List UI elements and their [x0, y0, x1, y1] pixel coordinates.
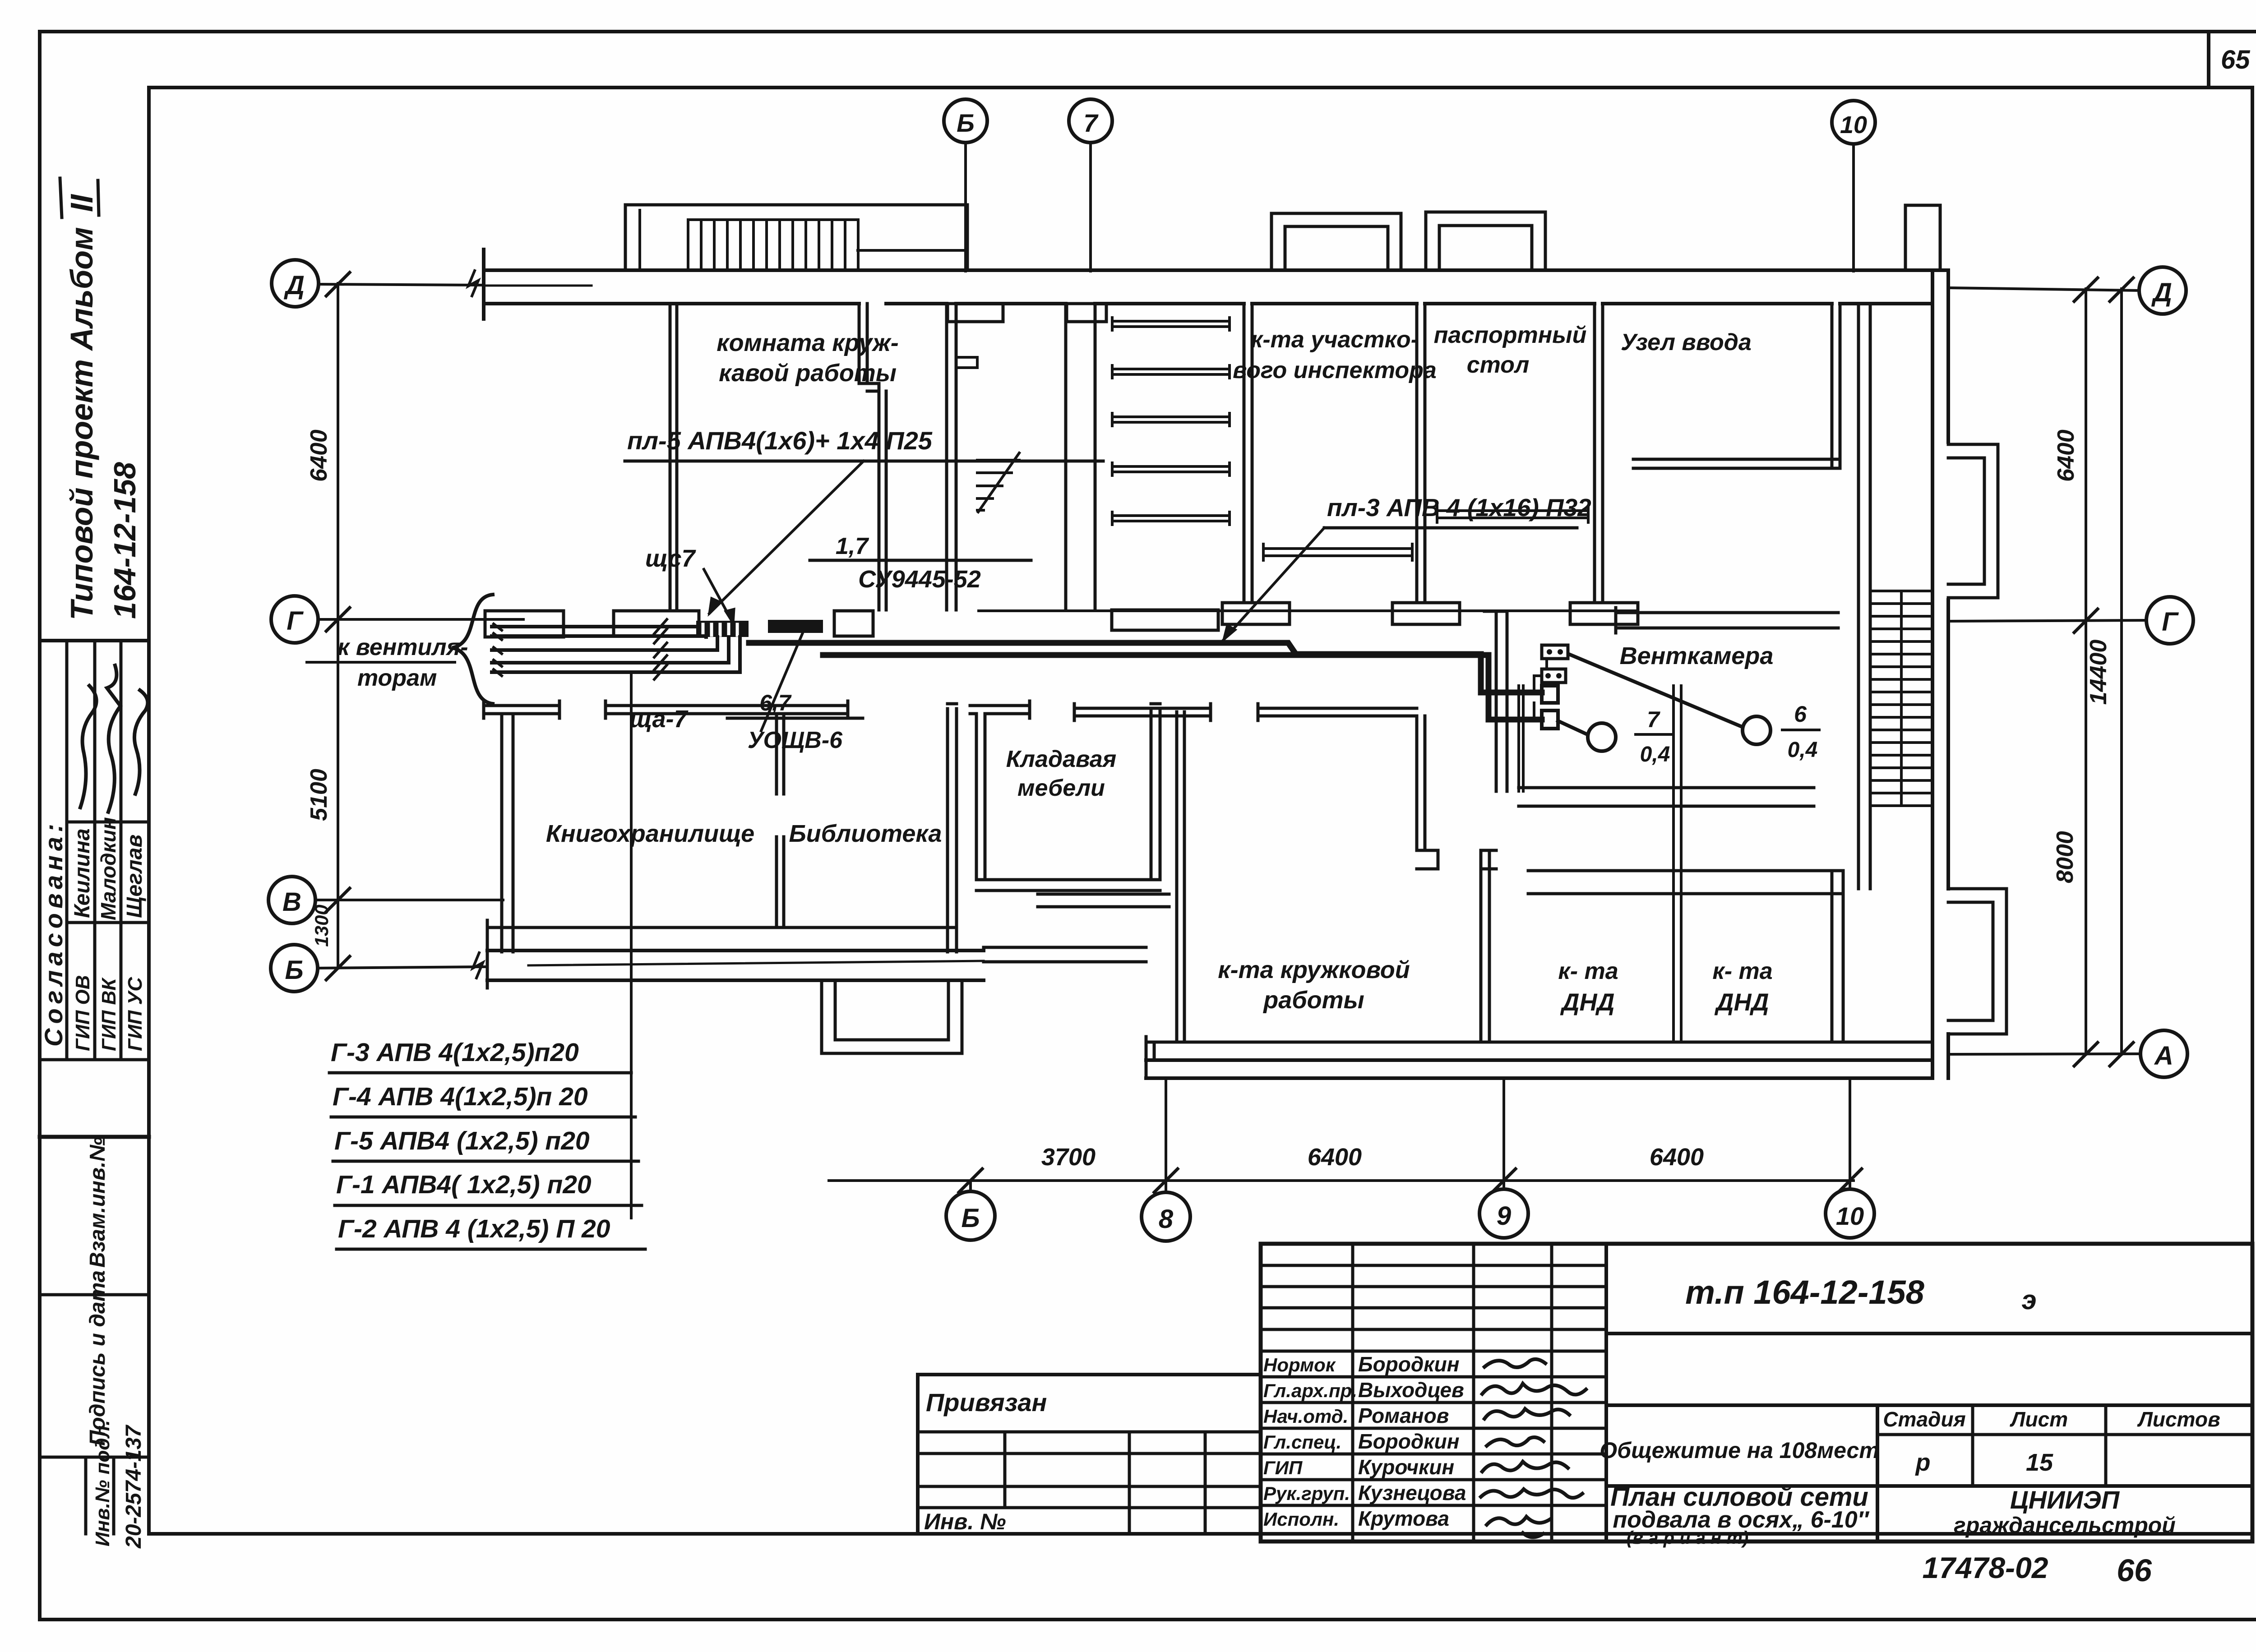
- corridor pilaster cap 1: [485, 611, 564, 637]
- svg-text:6400: 6400: [1308, 1144, 1362, 1171]
- right exterior wall: [1932, 270, 1948, 1078]
- svg-text:Б: Б: [961, 1204, 980, 1233]
- svg-text:20-2574-137: 20-2574-137: [122, 1424, 146, 1549]
- svg-text:Стадия: Стадия: [1883, 1407, 1965, 1431]
- svg-text:164-12-158: 164-12-158: [108, 462, 142, 619]
- svg-text:Малодкин: Малодкин: [97, 817, 120, 920]
- room label к-та участкового инспектора: [1233, 327, 1437, 383]
- svg-text:Исполн.: Исполн.: [1263, 1509, 1339, 1530]
- wire from starter to fan 6: [1569, 654, 1743, 727]
- svg-text:Выходцев: Выходцев: [1358, 1378, 1464, 1402]
- label пл-3 АПВ 4 (1x16) П32 with leader: [1224, 494, 1591, 640]
- svg-text:II: II: [64, 194, 99, 212]
- svg-text:вого инспектора: вого инспектора: [1233, 357, 1437, 383]
- svg-text:Согласована:: Согласована:: [39, 819, 68, 1047]
- svg-text:к-та участко-: к-та участко-: [1251, 327, 1419, 353]
- title cell План силовой сети: [1610, 1482, 1870, 1548]
- svg-text:к-та кружковой: к-та кружковой: [1218, 956, 1410, 983]
- ДНД top wall band: [1528, 871, 1843, 894]
- grid circle Д left: [272, 260, 319, 307]
- axis line Г right: [1950, 620, 2146, 621]
- svg-text:ГИП ОВ: ГИП ОВ: [72, 975, 94, 1051]
- stamp table verticals: [1353, 1244, 1606, 1541]
- svg-text:к вентиля-: к вентиля-: [337, 634, 468, 660]
- grid circle 10 top: [1832, 101, 1875, 144]
- grid circle 9 bottom: [1479, 1189, 1528, 1238]
- exterior top wall band: [484, 249, 1948, 319]
- узел ввода room bottom wall: [1633, 459, 1840, 468]
- feeder list Г-5: [333, 1126, 638, 1161]
- stairwell left wall: [947, 304, 956, 610]
- svg-text:Кеилина: Кеилина: [70, 828, 94, 918]
- svg-text:Романов: Романов: [1358, 1404, 1449, 1427]
- sidebar table Согласована: [39, 641, 149, 1060]
- grid circle 8 bottom: [1142, 1192, 1190, 1241]
- desk bar in инспектор room: [1263, 544, 1412, 560]
- stamp roles and names: [1263, 1352, 1466, 1530]
- wall left of инспектор room: [1244, 304, 1252, 603]
- title cell Общежитие на 108мест: [1600, 1405, 1879, 1541]
- stairwell right wall at axis 7: [1066, 304, 1095, 610]
- title cell т.п 164-12-158: [1606, 1274, 2252, 1334]
- stair flight hatch going down: [977, 453, 1019, 512]
- svg-text:Привязан: Привязан: [926, 1388, 1047, 1417]
- svg-text:Д: Д: [283, 271, 305, 300]
- svg-text:Узел ввода: Узел ввода: [1621, 329, 1752, 355]
- label fraction 1,7 / СУ9445-52: [810, 533, 1031, 593]
- feeder list Г-4: [331, 1082, 635, 1117]
- svg-text:Нормок: Нормок: [1263, 1354, 1336, 1375]
- magnetic starter box 2: [1542, 669, 1566, 683]
- bottom dimension line: [829, 1169, 1862, 1192]
- svg-text:ща-7: ща-7: [629, 706, 689, 733]
- svg-text:торам: торам: [357, 665, 437, 691]
- porch stair hatch lines: [688, 220, 858, 270]
- svg-text:Г-5 АПВ4 (1х2,5) п20: Г-5 АПВ4 (1х2,5) п20: [334, 1126, 590, 1155]
- label пл-5 АПВ4(1x6)+1x4 П25 with leader: [625, 426, 1103, 614]
- венткамера partition wall: [1674, 686, 1681, 1042]
- svg-text:В: В: [282, 887, 301, 917]
- svg-text:т.п 164-12-158: т.п 164-12-158: [1685, 1274, 1925, 1311]
- svg-text:кавой работы: кавой работы: [719, 360, 897, 387]
- svg-text:Гл.спец.: Гл.спец.: [1263, 1431, 1341, 1453]
- svg-text:мебели: мебели: [1017, 775, 1105, 801]
- right appendage upper double rect: [1948, 444, 1998, 598]
- svg-text:14400: 14400: [2085, 640, 2112, 705]
- svg-text:ГИП ВК: ГИП ВК: [98, 977, 120, 1051]
- entrance pit below Библиотека: [822, 980, 962, 1053]
- handwritten number 17478-02 66: [1923, 1551, 2152, 1588]
- axis line Г left: [318, 618, 523, 621]
- svg-text:ДНД: ДНД: [1715, 989, 1769, 1016]
- room label паспортный стол: [1434, 322, 1587, 378]
- svg-text:65: 65: [2221, 45, 2250, 74]
- feeder drop line to list: [630, 672, 633, 1218]
- axis line Б left: [318, 967, 486, 968]
- label щс7 with leader: [645, 545, 734, 623]
- узел ввода room right wall: [1832, 304, 1840, 468]
- corridor north line right part: [979, 609, 1638, 612]
- svg-text:17478-02: 17478-02: [1923, 1551, 2048, 1584]
- grid circle 10 bottom: [1826, 1189, 1874, 1238]
- stamp table thin rows: [1261, 1265, 1606, 1351]
- svg-text:ГИП УС: ГИП УС: [124, 977, 146, 1051]
- svg-text:комната круж-: комната круж-: [717, 329, 898, 356]
- svg-text:1,7: 1,7: [836, 533, 869, 559]
- svg-text:к- та: к- та: [1558, 958, 1618, 984]
- main cable run B from ЩА-7 to starters: [823, 655, 1542, 720]
- svg-text:6400: 6400: [2053, 429, 2079, 482]
- grid circle В left: [268, 877, 315, 923]
- grid circle Б top: [944, 99, 987, 143]
- svg-text:Кузнецова: Кузнецова: [1358, 1481, 1466, 1504]
- svg-text:10: 10: [1840, 111, 1867, 138]
- grid circle Г left: [271, 596, 318, 643]
- sheet number box 65: [2209, 32, 2250, 88]
- Библиотека right wall: [948, 704, 957, 952]
- label fraction 7/0,4: [1636, 707, 1673, 766]
- svg-text:Г-4 АПВ 4(1х2,5)п 20: Г-4 АПВ 4(1х2,5)п 20: [333, 1082, 588, 1111]
- sidebar cell Взам.инв.№: [40, 1137, 149, 1268]
- svg-text:6400: 6400: [1650, 1144, 1704, 1171]
- left dimension line with ticks: [326, 272, 350, 980]
- svg-text:Венткамера: Венткамера: [1620, 642, 1774, 669]
- кладовая right wall: [1151, 704, 1160, 880]
- svg-text:щс7: щс7: [645, 545, 697, 572]
- axis Б line through bottom wall: [528, 961, 984, 965]
- stem Б bottom: [969, 1181, 972, 1191]
- axis Д line through wall: [485, 285, 592, 287]
- title row separator: [1606, 1403, 2252, 1407]
- grid circle 7 top: [1069, 99, 1112, 143]
- corridor pilaster cap 3: [834, 611, 873, 636]
- label к вентиляторам: [307, 634, 468, 691]
- fan motor 6 circle: [1743, 716, 1771, 744]
- svg-text:Инв.№ подл.: Инв.№ подл.: [92, 1420, 114, 1546]
- svg-text:9: 9: [1497, 1201, 1511, 1231]
- венткамера inner left partition: [1519, 686, 1523, 791]
- svg-text:граждансельстрой: граждансельстрой: [1954, 1513, 2176, 1538]
- svg-text:Подпись и дата: Подпись и дата: [86, 1270, 110, 1446]
- feeder list Г-3: [329, 1038, 631, 1073]
- feeder list Г-1: [335, 1170, 642, 1205]
- svg-text:работы: работы: [1262, 987, 1364, 1014]
- main cable run A from ЩС7 to starters: [749, 643, 1542, 692]
- svg-text:паспортный: паспортный: [1434, 322, 1587, 348]
- svg-text:Листов: Листов: [2137, 1407, 2220, 1431]
- стадия лист values: [1606, 1449, 2252, 1486]
- axis line В left: [315, 899, 503, 901]
- room label Кладавая мебели: [1006, 746, 1117, 801]
- right appendage lower porch: [1948, 889, 2006, 1034]
- svg-text:Рук.груп.: Рук.груп.: [1263, 1483, 1350, 1504]
- sidebar cell Подпись и дата: [40, 1270, 149, 1446]
- svg-text:Г: Г: [287, 606, 304, 636]
- ДНД right wall: [1832, 871, 1843, 1042]
- title block outer rect: [1261, 1244, 2252, 1541]
- svg-text:р: р: [1915, 1449, 1931, 1476]
- кладовая left wall: [970, 701, 1030, 880]
- привязан table: [918, 1375, 1261, 1534]
- stair landing nub: [956, 357, 977, 368]
- starter square box 4: [1542, 711, 1558, 729]
- grid circle Б left: [271, 945, 318, 992]
- feeder list Г-2: [337, 1214, 645, 1249]
- room label к-та ДНД 1: [1558, 958, 1618, 1016]
- lower-left block bottom wall band: [487, 920, 984, 988]
- grid circle Б bottom: [946, 1191, 995, 1240]
- svg-text:1300: 1300: [311, 904, 332, 946]
- кружковая room right wall with jog: [1417, 716, 1438, 869]
- svg-text:Крутова: Крутова: [1358, 1507, 1449, 1530]
- cable tap slashes: [494, 619, 667, 679]
- svg-text:Г-2 АПВ 4 (1х2,5) П 20: Г-2 АПВ 4 (1х2,5) П 20: [338, 1214, 610, 1243]
- svg-text:Гл.арх.пр.: Гл.арх.пр.: [1263, 1380, 1357, 1401]
- stamp signatures squiggles: [1481, 1359, 1586, 1537]
- lower-left block top wall caps: [484, 701, 848, 718]
- grid circle Д right: [2139, 267, 2186, 314]
- label ща-7 with fraction 6,7/УОЩВ-6: [629, 633, 863, 753]
- lower-left block left wall: [502, 714, 513, 952]
- stairwell left wall right side: [1858, 304, 1870, 889]
- кладовая bottom wall band: [976, 880, 1169, 907]
- room label комната кружковой работы: [717, 329, 898, 387]
- stem 10 bottom: [1849, 1078, 1851, 1189]
- svg-text:А: А: [2154, 1041, 2173, 1071]
- венткамера bottom wall band: [1519, 788, 1814, 806]
- svg-text:ЦНИИЭП: ЦНИИЭП: [2010, 1486, 2120, 1514]
- svg-text:стол: стол: [1467, 352, 1530, 378]
- svg-text:7: 7: [1083, 109, 1099, 137]
- room label к-та кружковой работы: [1218, 956, 1410, 1014]
- svg-text:Г: Г: [2162, 607, 2179, 637]
- кружковая room left wall: [1177, 712, 1184, 1042]
- svg-text:Курочкин: Курочкин: [1358, 1455, 1454, 1479]
- power panel ЩС7 black block: [696, 621, 749, 637]
- sidebar signatures: [80, 686, 97, 808]
- svg-text:7: 7: [1647, 707, 1660, 732]
- stem 8 bottom: [1165, 1078, 1167, 1192]
- svg-text:Библиотека: Библиотека: [789, 820, 942, 847]
- pilaster bump below wall at axis Б top: [948, 304, 1003, 322]
- wall ДНД left: [1481, 850, 1496, 1042]
- svg-text:66: 66: [2117, 1553, 2152, 1588]
- svg-text:Кладавая: Кладавая: [1006, 746, 1117, 772]
- svg-text:3700: 3700: [1041, 1144, 1096, 1171]
- title cell ЦНИИЭП граждансельстрой: [1954, 1486, 2176, 1538]
- stair treads: [1870, 591, 1932, 806]
- svg-text:ДНД: ДНД: [1560, 989, 1615, 1016]
- axis line Д left: [319, 284, 482, 285]
- right dimension line inner with ticks: [2074, 278, 2098, 1066]
- upper-left room right wall with jog: [859, 304, 886, 610]
- magnetic starter box 1: [1542, 645, 1568, 659]
- svg-text:Общежитие на 108мест: Общежитие на 108мест: [1600, 1438, 1879, 1463]
- pilaster cap under инспектор left wall: [1222, 603, 1290, 624]
- power panel ЩА-7 black block: [768, 620, 823, 633]
- svg-text:0,4: 0,4: [1640, 743, 1670, 766]
- svg-text:Типовой проект Альбом: Типовой проект Альбом: [64, 227, 99, 620]
- svg-text:СУ9445-52: СУ9445-52: [858, 566, 981, 593]
- svg-text:8000: 8000: [2052, 831, 2078, 883]
- svg-text:пл-3 АПВ 4 (1х16) П32: пл-3 АПВ 4 (1х16) П32: [1327, 494, 1591, 521]
- svg-text:Взам.инв.№: Взам.инв.№: [86, 1137, 110, 1268]
- axis stem 7 top: [1089, 143, 1092, 271]
- pilaster cap under паспортный right wall: [1570, 603, 1638, 624]
- stamp table name rows: [1261, 1377, 1606, 1505]
- brace к вентиляторам: [452, 595, 493, 704]
- right dimension line outer with ticks: [2110, 278, 2133, 1066]
- wall between паспортный and узел ввода: [1595, 304, 1603, 603]
- axis line А right: [1950, 1054, 2140, 1054]
- svg-text:15: 15: [2026, 1449, 2053, 1476]
- label fraction 6/0,4: [1782, 701, 1819, 762]
- porch rectangle above top wall left: [625, 205, 967, 270]
- grid circle А right: [2140, 1030, 2187, 1077]
- axis stem Б top: [964, 143, 967, 271]
- right corner roof box above top wall: [1905, 205, 1940, 270]
- storage racks five bars: [1112, 318, 1230, 525]
- svg-text:Б: Б: [957, 109, 975, 137]
- svg-text:э: э: [2021, 1285, 2036, 1315]
- corridor pilaster cap 2: [614, 611, 699, 636]
- svg-text:6: 6: [1794, 701, 1807, 727]
- svg-text:Книгохранилище: Книгохранилище: [546, 820, 754, 847]
- svg-text:Б: Б: [285, 955, 303, 985]
- pilaster bump below wall at axis 7 top: [1067, 304, 1106, 322]
- svg-text:ГИП: ГИП: [1263, 1457, 1303, 1478]
- svg-text:Д: Д: [2151, 278, 2172, 307]
- svg-text:Щеглав: Щеглав: [123, 835, 147, 918]
- porch mid line right of hatch: [858, 249, 967, 252]
- венткамера top wall band: [1616, 608, 1838, 633]
- svg-text:Бородкин: Бородкин: [1358, 1352, 1460, 1376]
- svg-text:0,4: 0,4: [1788, 738, 1818, 762]
- pilaster cap under инспектор right wall: [1392, 603, 1460, 624]
- svg-text:Нач.отд.: Нач.отд.: [1263, 1406, 1348, 1427]
- svg-text:10: 10: [1836, 1202, 1864, 1230]
- starter interconnect wires: [1534, 659, 1547, 719]
- window pit box B above top wall: [1426, 212, 1545, 270]
- grid circle Г right: [2146, 597, 2193, 644]
- axis stem 10 top: [1852, 144, 1855, 271]
- sidebar cell Инв.№ подл. / 20-2574-137: [40, 1420, 149, 1549]
- svg-text:8: 8: [1159, 1204, 1174, 1234]
- svg-text:(в а р и а н т): (в а р и а н т): [1627, 1528, 1749, 1548]
- lower-right block top wall line segments: [1074, 704, 1417, 720]
- svg-text:Бородкин: Бородкин: [1358, 1430, 1460, 1453]
- partition Книгохранилище/Библиотека: [777, 714, 784, 928]
- axis line Д right: [1950, 288, 2139, 291]
- wire from starter to fan 7: [1558, 721, 1589, 735]
- fan motor 7 circle: [1588, 723, 1616, 751]
- window pit box A above top wall: [1271, 213, 1401, 270]
- room label к-та ДНД 2: [1712, 958, 1772, 1016]
- венткамера left wall: [1484, 611, 1507, 791]
- corridor pilaster cap 4 at stair walls: [1112, 610, 1218, 630]
- svg-text:5100: 5100: [306, 769, 332, 821]
- svg-text:пл-5 АПВ4(1х6)+ 1х4 П25: пл-5 АПВ4(1х6)+ 1х4 П25: [627, 426, 933, 455]
- стадия лист листов header: [1877, 1405, 2252, 1486]
- svg-text:6400: 6400: [306, 429, 332, 482]
- svg-text:Г-1 АПВ4( 1х2,5) п20: Г-1 АПВ4( 1х2,5) п20: [336, 1170, 592, 1199]
- svg-text:Лист: Лист: [2010, 1407, 2068, 1431]
- bottom wall of right section axis А: [1146, 1037, 1932, 1078]
- sidebar rotated title: Типовой проект Альбом II: [60, 178, 99, 620]
- starter square box 3: [1542, 686, 1558, 703]
- svg-text:Инв. №: Инв. №: [924, 1509, 1006, 1534]
- connecting wall band below кладовая: [984, 947, 1146, 962]
- wall between инспектор and паспортный: [1417, 304, 1425, 603]
- stem 9 bottom: [1502, 1078, 1505, 1189]
- svg-text:к- та: к- та: [1712, 958, 1772, 984]
- desk bar in паспортный room: [1437, 506, 1588, 522]
- svg-text:Г-3 АПВ 4(1х2,5)п20: Г-3 АПВ 4(1х2,5)п20: [331, 1038, 579, 1067]
- upper-left room left wall: [670, 304, 677, 610]
- cable bundle to fans - 5 lines: [492, 627, 740, 672]
